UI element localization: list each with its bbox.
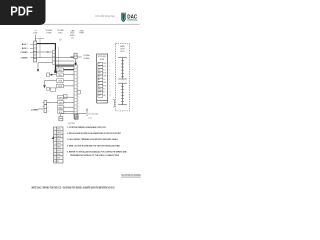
svg-text:BUS 2: BUS 2 — [22, 48, 28, 50]
svg-text:6: 6 — [55, 147, 56, 149]
wire header link — [36, 37, 45, 39]
J3 pin numbers — [48, 103, 49, 113]
svg-text:6: 6 — [64, 102, 65, 104]
svg-text:5. REFER TO INSTALLATION MANUA: 5. REFER TO INSTALLATION MANUAL FOR COMP… — [67, 150, 128, 153]
svg-text:BLU: BLU — [103, 69, 106, 71]
svg-text:3: 3 — [48, 110, 49, 112]
aux box B2 — [64, 94, 67, 98]
svg-text:CAN+: CAN+ — [58, 69, 63, 72]
wire +5DIM drop — [35, 35, 37, 41]
terminal box G1 — [75, 115, 79, 120]
svg-text:BRN: BRN — [103, 85, 106, 87]
svg-text:A+: A+ — [98, 75, 100, 78]
wire left feed 3 — [49, 88, 56, 90]
svg-text:SOLUTION AS ISSUED: SOLUTION AS ISSUED — [121, 174, 141, 177]
relay K1 — [53, 50, 56, 57]
svg-text:2: 2 — [55, 132, 56, 134]
svg-text:GRN: GRN — [59, 102, 64, 104]
svg-text:WIRE DIAG 2 WIRING FOR DIF DCS: WIRE DIAG 2 WIRING FOR DIF DCS - DIAGRAM… — [32, 186, 115, 190]
svg-text:2. RELAYS ARE SHOWN IN DE-ENER: 2. RELAYS ARE SHOWN IN DE-ENERGIZED POSI… — [67, 132, 122, 135]
column label +5 DIM — [34, 30, 38, 35]
svg-text:7: 7 — [64, 107, 65, 109]
junction node (filled square) — [54, 70, 57, 73]
svg-text:PWR: PWR — [100, 59, 105, 61]
harness symbol 2 — [118, 83, 127, 104]
wire BLK to P2 — [64, 111, 75, 113]
PDF badge — [0, 0, 46, 25]
U1 header — [98, 56, 107, 61]
wire COM to P2 — [64, 74, 75, 76]
connector J3 (3 cells) — [44, 101, 47, 113]
junction dot b — [73, 56, 74, 57]
svg-text:GRN: GRN — [103, 82, 106, 84]
svg-text:BUS 1: BUS 1 — [22, 44, 28, 46]
svg-text:to DCS 100: to DCS 100 — [88, 113, 98, 116]
svg-text:3: 3 — [55, 136, 56, 138]
svg-text:5: 5 — [55, 143, 56, 145]
TB1 row labels — [57, 129, 62, 163]
wire into P2 top — [70, 56, 74, 58]
inline box on feed 1 — [47, 73, 50, 77]
wire J3 to GRN — [47, 101, 58, 103]
svg-text:8: 8 — [64, 112, 65, 114]
svg-text:ENC: ENC — [58, 33, 63, 35]
U1 outside pin numbers — [109, 63, 111, 97]
connector P2 top block — [74, 53, 77, 59]
wire COMM2 row — [39, 62, 53, 64]
wire ground drop 2 — [60, 114, 62, 117]
wire GRN to P2 — [64, 101, 75, 103]
arrow under P2 top — [75, 59, 77, 62]
wire left feed 1 — [50, 74, 57, 76]
P2 pin numbers — [78, 66, 80, 115]
aux box right of P2 — [77, 90, 80, 94]
svg-text:10: 10 — [54, 161, 56, 163]
wire out of P2 top — [77, 56, 82, 58]
svg-text:5: 5 — [64, 97, 65, 99]
svg-text:485B: 485B — [57, 147, 61, 149]
svg-text:BLK: BLK — [103, 89, 106, 91]
label COM+ / COM- — [83, 55, 91, 60]
dashed enclosure MAIN DISP UNIT — [115, 44, 129, 111]
svg-text:PW: PW — [98, 92, 101, 94]
label box RED — [58, 106, 64, 110]
header rule — [44, 24, 140, 25]
column label ROTATE ENC — [57, 29, 64, 35]
svg-text:YEL: YEL — [103, 79, 106, 81]
cable bracket — [113, 100, 114, 108]
wire COMM2 stub — [38, 108, 43, 110]
svg-text:9: 9 — [55, 157, 56, 159]
svg-text:4. WIRE COLORS SHOWN ARE FOR F: 4. WIRE COLORS SHOWN ARE FOR FACTORY INS… — [67, 144, 121, 147]
label box CAN+ — [57, 68, 64, 72]
svg-text:2: 2 — [35, 46, 36, 48]
svg-text:1: 1 — [55, 129, 56, 131]
svg-text:DCS 1000 Wiring Diag: DCS 1000 Wiring Diag — [96, 15, 116, 18]
svg-text:ORN: ORN — [59, 97, 64, 99]
wire BUS2 row — [33, 51, 47, 53]
label box COM — [57, 73, 64, 77]
label box A- — [57, 84, 64, 88]
column label MTR ABS PWR — [46, 29, 53, 35]
svg-text:TERMINATION DETAILS OF THE FIE: TERMINATION DETAILS OF THE FIELD CONNECT… — [70, 154, 120, 157]
svg-text:4: 4 — [55, 139, 56, 141]
svg-text:DIM: DIM — [34, 33, 38, 35]
connector P2 (main strip) — [74, 65, 77, 119]
wire power (thick) J1 to P2 — [37, 44, 74, 71]
wire K1 out — [56, 57, 75, 59]
svg-text:CL: CL — [98, 69, 100, 71]
wire CAN+ thick to P2 — [64, 69, 75, 71]
column label GND PWR — [79, 30, 84, 34]
inline box on feed 3 — [47, 87, 50, 90]
logo tagline — [127, 19, 137, 22]
wire mid vertical — [58, 47, 60, 71]
wire circle to K1 — [48, 51, 52, 53]
wire feed 2 drop — [44, 81, 46, 86]
svg-text:8: 8 — [55, 154, 56, 156]
wire left feed 2 — [45, 80, 57, 82]
terminal table TB1 — [54, 127, 63, 163]
svg-text:1. SYSTEM WIRING DIAGRAM FOR D: 1. SYSTEM WIRING DIAGRAM FOR DCS — [67, 126, 107, 129]
ground G2 — [59, 116, 63, 120]
J3 stubs — [43, 103, 44, 107]
wire A+ to P2 — [64, 80, 75, 82]
wire RED to P2 — [64, 106, 75, 108]
wire A- to P2 — [64, 85, 75, 87]
svg-text:COMM2: COMM2 — [20, 57, 27, 59]
junction dot a — [71, 56, 72, 57]
label box ORN — [58, 96, 64, 100]
svg-text:COMM-: COMM- — [83, 58, 90, 60]
wire K2 out b — [56, 63, 75, 65]
svg-text:NOTES: NOTES — [68, 123, 75, 125]
svg-text:1: 1 — [35, 43, 36, 45]
label box BLK — [58, 110, 64, 114]
enclosure title — [120, 45, 125, 53]
logo shield — [121, 13, 126, 22]
svg-text:(75): (75) — [88, 117, 92, 119]
connector J1 (left strip) — [34, 41, 37, 62]
svg-text:3: 3 — [35, 50, 36, 52]
svg-text:PWR: PWR — [79, 33, 84, 35]
svg-text:6: 6 — [35, 60, 36, 62]
svg-text:COMM2: COMM2 — [31, 109, 39, 111]
svg-text:3. FIELD WIRING TERMINALS SHOW: 3. FIELD WIRING TERMINALS SHOWN WITH SHI… — [67, 138, 119, 141]
arrow node down — [43, 85, 45, 88]
aux label box row5 — [50, 88, 56, 91]
column label CAN BUS SHLD — [70, 29, 76, 39]
svg-text:PDF: PDF — [10, 5, 33, 19]
svg-text:2: 2 — [48, 106, 49, 108]
wire COMM1 row — [33, 57, 53, 59]
svg-text:4: 4 — [35, 53, 36, 55]
junction square feed 1 — [51, 74, 53, 76]
label box GRN — [58, 101, 64, 105]
J1 pin numbers — [35, 43, 36, 63]
svg-text:1: 1 — [48, 103, 49, 105]
svg-text:(1): (1) — [71, 38, 74, 40]
svg-text:GRY: GRY — [103, 95, 106, 97]
wire aux column drop — [39, 38, 41, 57]
wire ORN to P2 — [64, 96, 75, 98]
svg-text:COMM1: COMM1 — [20, 52, 27, 54]
relay K2 — [53, 57, 56, 64]
svg-text:10: 10 — [109, 92, 111, 94]
svg-text:E2: E2 — [59, 40, 61, 42]
pin table U1 — [97, 54, 108, 103]
arrow to sheet 2 — [37, 63, 39, 70]
svg-text:GPS: GPS — [57, 139, 60, 141]
wire K2 out a — [56, 60, 75, 62]
svg-text:ORN: ORN — [103, 76, 106, 78]
svg-text:7: 7 — [55, 150, 56, 152]
svg-text:5V01: 5V01 — [57, 129, 61, 131]
svg-text:PWR: PWR — [47, 33, 52, 35]
svg-text:11: 11 — [109, 95, 111, 97]
svg-text:CAN-: CAN- — [58, 74, 63, 77]
svg-text:COMM+: COMM+ — [83, 55, 91, 57]
TB1 row numbers — [54, 129, 56, 163]
U1 pin rows — [98, 62, 107, 97]
lower label pin numbers — [64, 97, 65, 114]
wire bottom run — [61, 113, 86, 115]
TB1 marker arrow — [52, 136, 54, 139]
J1 left pin stubs — [30, 44, 34, 58]
harness symbol 1 — [118, 58, 127, 79]
node fuse circle F1 — [47, 51, 49, 53]
termination stub — [86, 108, 88, 116]
svg-text:WHT: WHT — [103, 66, 106, 68]
svg-text:B+: B+ — [98, 82, 100, 84]
label box A+ — [57, 79, 64, 83]
